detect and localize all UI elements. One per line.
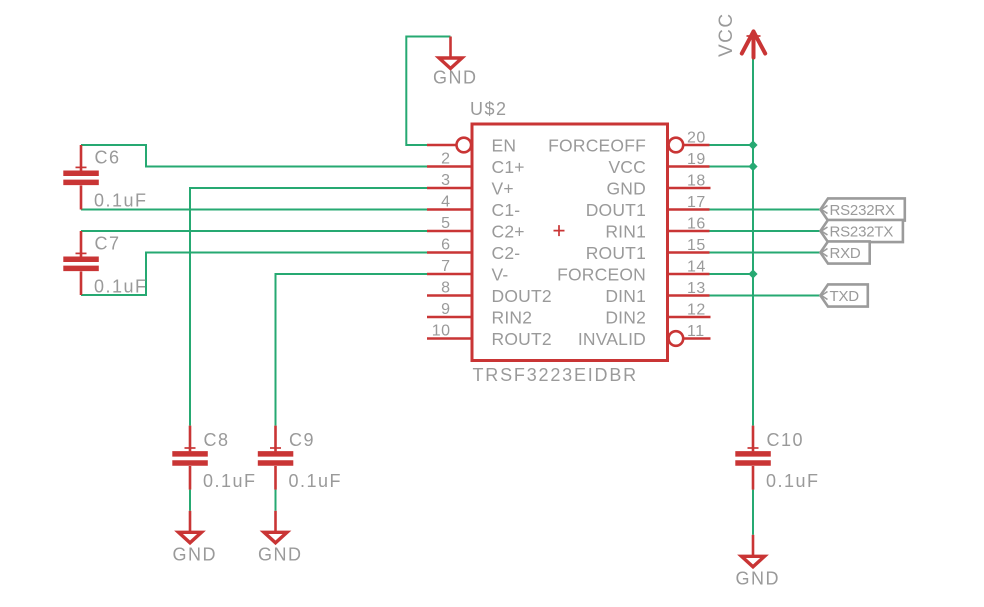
svg-text:DIN2: DIN2: [605, 308, 646, 328]
net flag RS232TX (node at pin 16 wire end): [820, 220, 903, 242]
svg-text:9: 9: [441, 301, 450, 318]
svg-text:0.1uF: 0.1uF: [766, 471, 820, 491]
pin 13 DIN1: [605, 280, 709, 306]
pin 1 EN (inverted): [427, 136, 516, 156]
ground symbol below C10: [736, 535, 781, 589]
wire VCC rail vertical: [752, 58, 754, 426]
svg-text:7: 7: [441, 258, 450, 275]
svg-text:C6: C6: [95, 148, 121, 168]
pin 12 DIN2: [605, 302, 710, 328]
svg-text:U$2: U$2: [470, 99, 508, 119]
wire pin 17 DOUT1 to RS232RX flag: [710, 209, 821, 211]
svg-text:15: 15: [687, 237, 706, 254]
pin 15 ROUT1: [586, 237, 710, 263]
svg-text:INVALID: INVALID: [578, 329, 646, 349]
svg-text:GND: GND: [607, 179, 647, 199]
svg-text:ROUT2: ROUT2: [492, 329, 552, 349]
wire C6 top to pin 2 C1+: [81, 145, 427, 167]
svg-text:11: 11: [687, 323, 705, 340]
capacitor C9: [258, 426, 342, 491]
wire pin 16 RIN1 to RS232TX flag: [710, 230, 821, 232]
pin 16 RIN1: [605, 216, 709, 242]
svg-text:RS232TX: RS232TX: [830, 224, 894, 241]
svg-text:19: 19: [687, 151, 706, 168]
wire pin 19 VCC to VCC rail: [710, 166, 754, 168]
wire C9 bottom to ground: [275, 490, 277, 511]
wire C6 bottom to pin 4 C1-: [81, 209, 427, 211]
junction at pin 14 / VCC rail: [748, 269, 757, 278]
svg-text:DIN1: DIN1: [605, 286, 646, 306]
svg-text:TXD: TXD: [830, 288, 860, 305]
wire C8 bottom to ground: [189, 490, 191, 511]
svg-text:0.1uF: 0.1uF: [94, 190, 148, 210]
ground symbol below C9: [258, 511, 303, 565]
net flag RXD (node at pin 15 wire end): [820, 241, 869, 263]
svg-text:GND: GND: [173, 545, 218, 565]
svg-text:DOUT2: DOUT2: [492, 286, 552, 306]
svg-text:3: 3: [441, 172, 450, 189]
svg-text:VCC: VCC: [716, 12, 737, 57]
wire pin 20 FORCEOFF to VCC rail: [710, 144, 754, 146]
wire pin 13 DIN1 to TXD flag: [710, 295, 821, 297]
svg-text:0.1uF: 0.1uF: [203, 471, 257, 491]
wire C7 top to pin 5 C2+: [81, 230, 427, 232]
svg-text:VCC: VCC: [608, 157, 646, 177]
U$2 refdes label: [470, 99, 508, 119]
pin 3 V+: [427, 172, 514, 199]
wire pin 15 ROUT1 to RXD flag: [710, 252, 821, 254]
svg-text:GND: GND: [258, 545, 303, 565]
svg-text:C9: C9: [289, 430, 315, 450]
pin 9 RIN2: [427, 301, 532, 328]
pin 19 VCC: [608, 151, 709, 177]
svg-text:17: 17: [687, 194, 706, 211]
svg-text:V-: V-: [492, 265, 509, 285]
svg-text:8: 8: [441, 280, 450, 297]
wire pin 7 V- to C9 top: [276, 274, 428, 426]
svg-text:0.1uF: 0.1uF: [289, 471, 343, 491]
svg-text:0.1uF: 0.1uF: [94, 276, 148, 296]
wire C7 bottom to pin 6 C2-: [81, 253, 427, 296]
capacitor C8: [172, 426, 256, 491]
svg-text:6: 6: [441, 237, 450, 254]
net flag TXD (node at pin 13 wire end): [820, 284, 867, 306]
svg-text:C1-: C1-: [492, 200, 521, 220]
svg-text:16: 16: [687, 216, 706, 233]
junction at pin 20 / VCC rail: [748, 140, 757, 149]
TRSF3223EIDBR value label: [473, 365, 638, 385]
svg-text:20: 20: [687, 130, 706, 147]
svg-text:C8: C8: [204, 430, 230, 450]
pin 2 C1+: [427, 151, 525, 178]
svg-text:RIN1: RIN1: [605, 222, 646, 242]
svg-text:10: 10: [432, 323, 451, 340]
svg-text:C2-: C2-: [492, 243, 521, 263]
capacitor C10: [735, 426, 819, 491]
wire C10 bottom to ground: [752, 490, 754, 535]
svg-text:14: 14: [687, 259, 706, 276]
svg-text:FORCEON: FORCEON: [557, 265, 646, 285]
pin 17 DOUT1: [586, 194, 710, 220]
pin 5 C2+: [427, 215, 525, 242]
svg-text:2: 2: [441, 151, 450, 168]
op-amp U$2 TRSF3223EIDBR body: [472, 124, 668, 361]
svg-text:13: 13: [687, 280, 706, 297]
svg-text:5: 5: [441, 215, 450, 232]
svg-text:C7: C7: [95, 234, 121, 254]
svg-text:TRSF3223EIDBR: TRSF3223EIDBR: [473, 365, 638, 385]
svg-text:C10: C10: [767, 430, 805, 450]
svg-text:RXD: RXD: [830, 245, 861, 262]
svg-text:RS232RX: RS232RX: [830, 202, 895, 219]
pin 20 FORCEOFF (inverted): [548, 130, 709, 156]
svg-text:C1+: C1+: [492, 157, 525, 177]
svg-text:FORCEOFF: FORCEOFF: [548, 136, 646, 156]
wire pin 14 FORCEON to VCC rail: [710, 273, 754, 275]
pin 14 FORCEON: [557, 259, 709, 285]
ground symbol top (near pin 1): [433, 37, 478, 88]
svg-text:DOUT1: DOUT1: [586, 200, 646, 220]
svg-text:ROUT1: ROUT1: [586, 243, 646, 263]
svg-text:EN: EN: [492, 136, 517, 156]
pin 10 ROUT2: [427, 323, 552, 350]
wire pin 3 V+ to C8 top: [190, 188, 427, 426]
junction at pin 19 / VCC rail: [748, 162, 757, 171]
svg-text:4: 4: [441, 194, 450, 211]
pin 11 INVALID (inverted): [578, 323, 711, 349]
pin 7 V-: [427, 258, 508, 285]
svg-text:18: 18: [687, 173, 706, 190]
svg-text:12: 12: [687, 302, 706, 319]
pin 8 DOUT2: [427, 280, 552, 307]
pin 6 C2-: [427, 237, 520, 264]
capacitor C6: [63, 145, 147, 210]
svg-text:GND: GND: [736, 569, 781, 589]
svg-text:RIN2: RIN2: [492, 308, 533, 328]
svg-text:V+: V+: [492, 179, 514, 199]
pin 4 C1-: [427, 194, 520, 221]
svg-text:C2+: C2+: [492, 222, 525, 242]
wire GND net from top ground to pin 1 EN: [406, 37, 450, 146]
capacitor C7: [63, 231, 147, 296]
pin 18 GND: [607, 173, 711, 199]
VCC supply symbol: [716, 12, 765, 57]
ground symbol below C8: [173, 511, 218, 565]
net flag RS232RX (node at pin 17 wire end): [820, 198, 904, 220]
svg-text:GND: GND: [433, 68, 478, 88]
